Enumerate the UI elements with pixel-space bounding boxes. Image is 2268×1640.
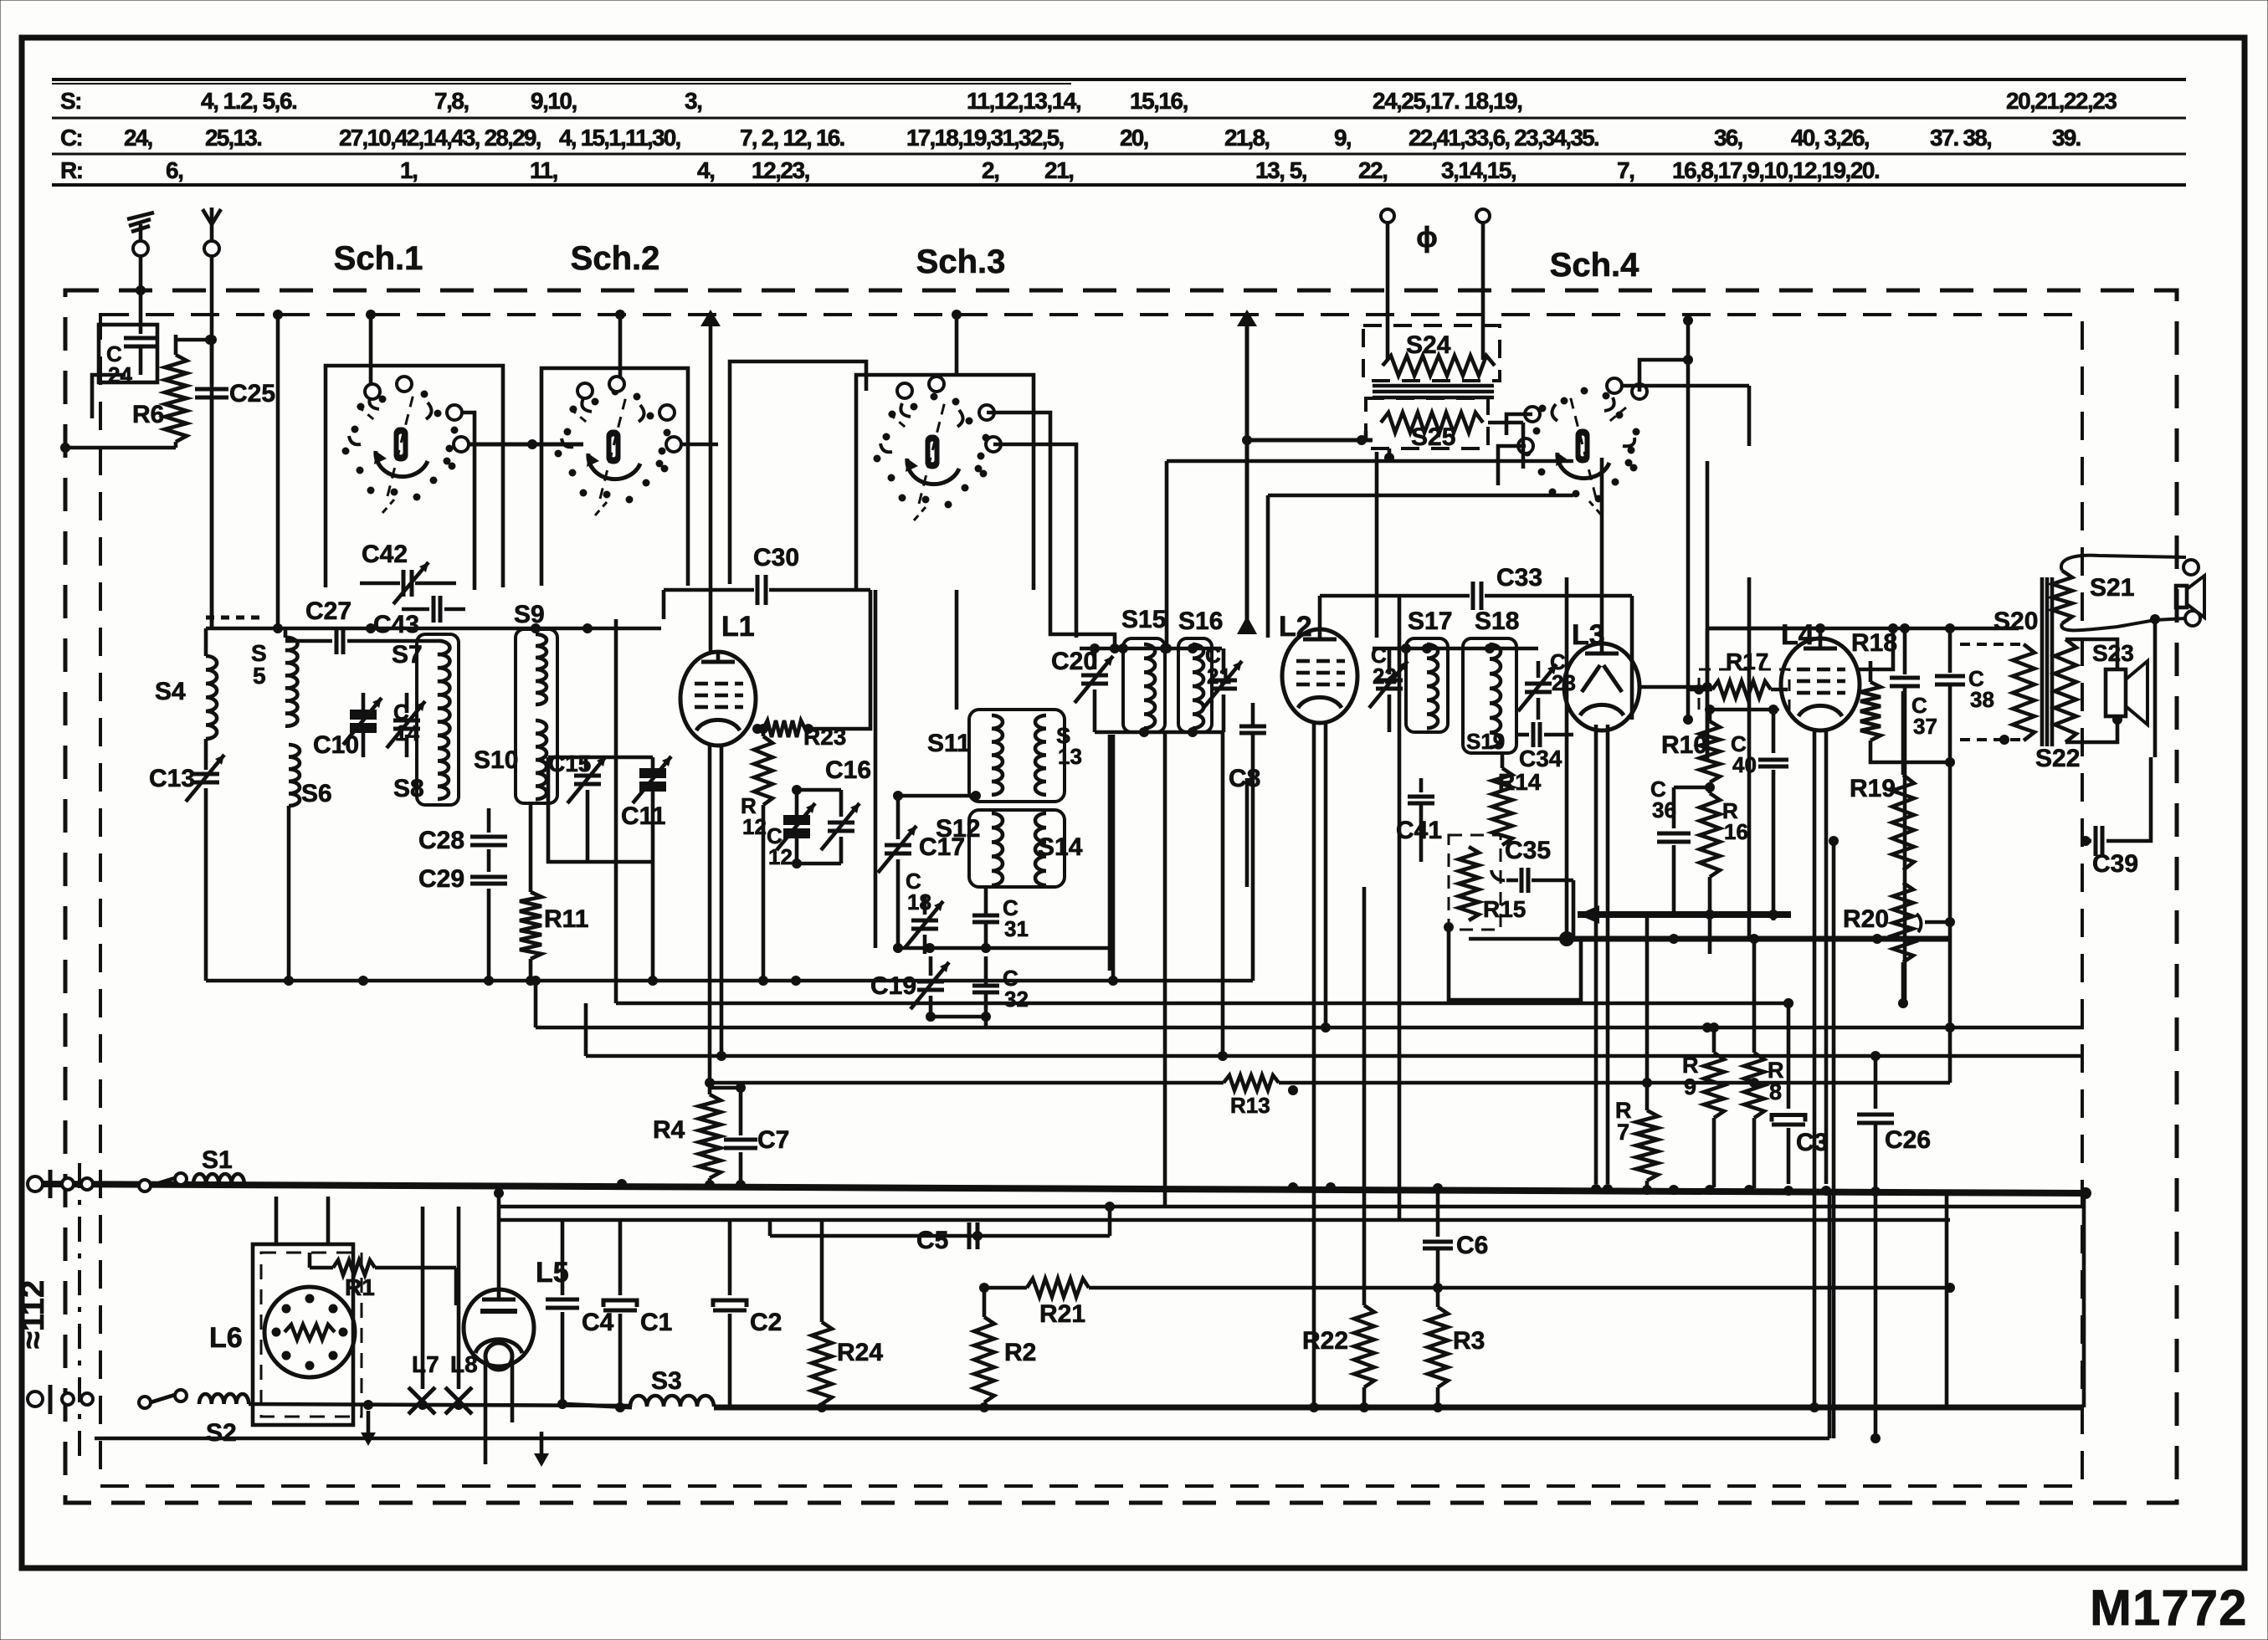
capacitor C19 [870, 956, 949, 1017]
wire L4 plate right [1858, 623, 1898, 669]
capacitor C39 [2081, 757, 2151, 878]
capacitor C3 [1772, 998, 1828, 1184]
resistor R12 [741, 724, 772, 986]
wire Sch.1 to Sch.2 [462, 413, 583, 590]
table extra top rule [52, 83, 1071, 85]
table R row '11,' [530, 157, 557, 183]
svg-text:M1772: M1772 [2090, 1580, 2247, 1636]
svg-text:4,: 4, [697, 157, 714, 183]
svg-text:38: 38 [1970, 687, 1994, 712]
table C row '20,' [1120, 125, 1148, 151]
svg-text:C7: C7 [757, 1126, 789, 1154]
wire R18 bottom [1870, 757, 1955, 767]
table R row '3,14,15,' [1441, 157, 1516, 183]
wire L1 legs [710, 746, 721, 1083]
table R row '13, 5,' [1255, 157, 1306, 183]
wire H1294 [705, 1078, 1224, 1088]
capacitor C17 [878, 791, 981, 953]
capacitor C37 [1890, 628, 1937, 1003]
wire ground to chassis [136, 255, 146, 295]
coil S5 [251, 628, 297, 726]
capacitor C34 [1516, 722, 1573, 771]
wire bottom risers [1947, 1193, 2084, 1407]
enclosure S15 [1123, 638, 1165, 732]
svg-text:C8: C8 [1229, 765, 1260, 792]
svg-text:R14: R14 [1498, 769, 1542, 795]
wire speaker drop [2153, 619, 2158, 757]
table rule 2 [52, 117, 2186, 120]
wire S15 bottoms [1095, 727, 1224, 737]
resistor R10 [1661, 705, 1720, 782]
svg-text:24: 24 [108, 362, 132, 387]
capacitor C30 [664, 544, 870, 729]
table R row '2,' [982, 157, 998, 183]
rotary switch Sch.4 [1518, 378, 1647, 515]
wire H1228 [531, 976, 2084, 1033]
svg-text:9: 9 [1684, 1074, 1696, 1099]
svg-text:R24: R24 [837, 1339, 883, 1366]
svg-text:R18: R18 [1851, 629, 1897, 657]
svg-text:4, 15,1,11,30,: 4, 15,1,11,30, [559, 125, 680, 151]
wire R21 right [1089, 1283, 1955, 1293]
table C row '4, 15,1,11,30,' [559, 125, 680, 151]
svg-text:Sch.2: Sch.2 [571, 240, 660, 277]
svg-text:≈112: ≈112 [16, 1280, 51, 1349]
capacitor C27 [285, 597, 438, 654]
enclosure S11 S13 [969, 710, 1065, 802]
svg-text:C2: C2 [750, 1309, 782, 1336]
wire cross 547 [1706, 461, 1710, 761]
svg-text:S18: S18 [1475, 607, 1519, 635]
label S19 [1466, 729, 1505, 754]
resistor R4 [653, 1083, 721, 1184]
coil S6 [289, 745, 332, 981]
coil S22 [2035, 639, 2117, 772]
wire L5 legs [485, 1361, 512, 1464]
capacitor C15 [548, 751, 606, 862]
wire IF caps [898, 943, 1113, 1028]
svg-text:C35: C35 [1505, 837, 1551, 864]
svg-text:11,12,13,14,: 11,12,13,14, [967, 88, 1080, 114]
capacitor C38 [1935, 628, 1994, 912]
tube L4 [1781, 619, 1860, 730]
svg-text:R20: R20 [1843, 905, 1889, 933]
svg-text:R10: R10 [1661, 731, 1707, 759]
capacitor C14 [387, 693, 425, 757]
table C row 'C:' [60, 125, 82, 151]
wire lamp line [249, 1400, 632, 1410]
svg-text:27,10,42,14,43, 28,29,: 27,10,42,14,43, 28,29, [339, 125, 541, 151]
wire right risers [1945, 912, 1955, 1083]
svg-text:20,: 20, [1120, 125, 1148, 151]
svg-text:S21: S21 [2090, 574, 2134, 602]
wire antenna down [207, 255, 217, 628]
svg-text:C33: C33 [1496, 564, 1542, 592]
wire R6 bottom [60, 443, 176, 453]
svg-text:S8: S8 [393, 775, 424, 802]
svg-text:39.: 39. [2052, 125, 2081, 151]
resistor R3 [1428, 1249, 1485, 1406]
svg-text:25,13.: 25,13. [205, 125, 261, 151]
svg-text:C16: C16 [825, 756, 871, 784]
chassis dashed rect inner [100, 315, 2082, 1486]
svg-text:21: 21 [1207, 664, 1231, 689]
wire L4 top [1707, 623, 1825, 761]
wire H1294 right [1279, 915, 1950, 1095]
svg-text:21,: 21, [1044, 157, 1073, 183]
enclosure S16 [1178, 638, 1212, 732]
table S row '24,25,17. 18,19,' [1373, 88, 1521, 114]
resistor R20 [1843, 883, 1955, 1003]
ground arrow L5 [534, 1432, 549, 1467]
capacitor C4 [546, 1222, 614, 1406]
transformer core [1373, 386, 1494, 397]
capacitor C24 [92, 290, 157, 418]
wire Sch.2 out [681, 443, 718, 447]
coil S9 [514, 601, 546, 705]
capacitor C12 [767, 790, 815, 869]
svg-text:S4: S4 [155, 678, 186, 705]
svg-text:C11: C11 [621, 802, 665, 830]
wire L4 legs [1814, 729, 1826, 1406]
capacitor C28 [418, 808, 507, 854]
svg-text:R15: R15 [1483, 896, 1526, 922]
svg-text:22,: 22, [1358, 157, 1387, 183]
table C row '25,13.' [205, 125, 261, 151]
label Sch.4 [1550, 247, 1639, 284]
enclosure S9 S10 [516, 629, 557, 803]
wire x1326 riser [1108, 735, 1112, 971]
wire bottom bus [557, 1399, 2084, 1412]
svg-text:Sch.3: Sch.3 [916, 243, 1006, 280]
capacitor C36 [1650, 776, 1710, 915]
svg-text:C43: C43 [373, 611, 419, 638]
tube L6 [209, 1287, 355, 1377]
svg-text:8: 8 [1769, 1079, 1782, 1104]
svg-text:16,8,17,9,10,12,19,20.: 16,8,17,9,10,12,19,20. [1672, 157, 1879, 183]
capacitor C7 [710, 1083, 789, 1184]
svg-text:S15: S15 [1121, 606, 1166, 633]
capacitor C29 [418, 849, 507, 981]
svg-text:9,: 9, [1334, 125, 1351, 151]
svg-text:32: 32 [1004, 987, 1029, 1012]
resistor R17 [1699, 648, 1789, 710]
svg-text:R2: R2 [1004, 1339, 1036, 1366]
table C row '7, 2, 12, 16.' [740, 125, 844, 151]
coil S20 [1960, 607, 2038, 745]
table C row '9,' [1334, 125, 1351, 151]
svg-text:12,23,: 12,23, [752, 157, 809, 183]
svg-text:12: 12 [742, 814, 767, 839]
wire Sch4 to L3 [1498, 355, 1693, 485]
table C row '22,41,33,6, 23,34,35.' [1409, 125, 1598, 151]
svg-text:20,21,22,23: 20,21,22,23 [2006, 88, 2117, 114]
enclosure Sch.2 [541, 368, 688, 586]
svg-text:S3: S3 [651, 1367, 682, 1395]
svg-text:C29: C29 [418, 865, 464, 893]
table R row '4,' [697, 157, 714, 183]
capacitor C32 [972, 956, 1029, 1017]
capacitor C16 [792, 756, 871, 869]
coil S4 [155, 628, 217, 739]
capacitor C2 [713, 1222, 782, 1406]
wire H1262 [586, 1003, 2084, 1061]
label mains 112 [16, 1163, 80, 1464]
wire H1172 extension [1111, 735, 1116, 981]
wire S16 feed drop [1162, 461, 1172, 653]
table S row '20,21,22,23' [2006, 88, 2117, 114]
tube L1 [680, 611, 756, 746]
table S row '11,12,13,14,' [967, 88, 1080, 114]
enclosure S12 S14 [969, 810, 1065, 887]
svg-text:36,: 36, [1714, 125, 1742, 151]
svg-text:C10: C10 [313, 731, 359, 759]
table R row '12,23,' [752, 157, 809, 183]
label Sch.1 [334, 240, 423, 277]
wire S15 leg down [1163, 732, 1167, 1207]
svg-text:22,41,33,6, 23,34,35.: 22,41,33,6, 23,34,35. [1409, 125, 1598, 151]
wire x1672 drop [1398, 596, 1402, 1220]
wire coils bottom bus [206, 976, 1253, 986]
table S row '9,10,' [531, 88, 577, 114]
capacitor C11 [621, 756, 671, 986]
svg-text:C39: C39 [2092, 850, 2138, 878]
svg-text:C41: C41 [1396, 817, 1442, 844]
coil S2 [199, 1394, 249, 1447]
wire R17 junction [1688, 684, 1773, 710]
resistor R2 [974, 1288, 1036, 1402]
ground arrow L6 [361, 1411, 376, 1446]
rotary switch Sch.1 [342, 377, 470, 513]
wire Sch3 right drop B [993, 444, 1076, 638]
svg-text:S10: S10 [474, 746, 518, 774]
table S row '3,' [685, 88, 701, 114]
svg-text:C3: C3 [1796, 1129, 1828, 1156]
resistor R1 [276, 1197, 456, 1305]
svg-text:3,14,15,: 3,14,15, [1441, 157, 1516, 183]
capacitor C42 [360, 541, 456, 604]
wire main bus B+ [35, 1179, 2091, 1199]
transformer S25 [1366, 398, 1523, 469]
svg-text:16: 16 [1724, 819, 1748, 844]
wire Sch.3 top feed [952, 310, 962, 377]
svg-text:R13: R13 [1230, 1093, 1270, 1118]
coil S3 [630, 1367, 714, 1407]
table R row '6,' [166, 157, 182, 183]
resistor R13 [1224, 1075, 1279, 1118]
svg-text:R6: R6 [132, 401, 164, 428]
resistor R18 [1851, 629, 1897, 757]
resistor R11 [520, 803, 588, 981]
svg-text:C19: C19 [870, 972, 916, 1000]
capacitor C22 [1369, 643, 1408, 732]
wire S16 leg down [1218, 732, 1228, 1061]
svg-text:13: 13 [1058, 744, 1082, 769]
switch S1 lever [139, 1173, 187, 1192]
resistor R22 [1302, 887, 1374, 1406]
svg-text:40, 3,26,: 40, 3,26, [1791, 125, 1869, 151]
lamp L8 [445, 1207, 478, 1414]
table C row '39.' [2052, 125, 2081, 151]
svg-text:S24: S24 [1406, 331, 1451, 359]
svg-text:15,16,: 15,16, [1130, 88, 1188, 114]
svg-text:S17: S17 [1408, 607, 1452, 635]
wire S15 tops [1080, 643, 1222, 653]
coil S16 [1178, 607, 1223, 728]
svg-text:S19: S19 [1466, 729, 1505, 754]
svg-text:L4: L4 [1781, 619, 1814, 651]
wire H1719 [95, 1193, 1881, 1443]
svg-text:13, 5,: 13, 5, [1255, 157, 1306, 183]
wire L5 topcap [494, 1188, 504, 1289]
wire H1199 [616, 619, 1908, 1008]
svg-text:C5: C5 [916, 1227, 948, 1254]
wire x1872 drop [1565, 577, 1569, 939]
svg-text:22: 22 [1373, 664, 1397, 689]
svg-text:37. 38,: 37. 38, [1930, 125, 1991, 151]
svg-text:36: 36 [1652, 797, 1676, 823]
wire top coil bus [206, 618, 661, 633]
svg-text:C13: C13 [149, 765, 195, 792]
svg-text:R17: R17 [1726, 648, 1768, 674]
capacitor C33 [1320, 564, 1632, 720]
svg-text:C28: C28 [418, 827, 464, 854]
svg-text:1,: 1, [400, 157, 417, 183]
coil S12 [936, 813, 1003, 885]
svg-text:C1: C1 [640, 1309, 672, 1336]
enclosure S17 [1406, 638, 1448, 732]
table S row 'S:' [60, 88, 81, 114]
svg-text:7,8,: 7,8, [434, 88, 469, 114]
wire S25 bottom drop [1375, 452, 1379, 638]
resistor R14 [1492, 753, 1542, 845]
table C row '36,' [1714, 125, 1742, 151]
svg-text:R:: R: [60, 157, 83, 183]
wire R21 line [979, 1283, 1027, 1293]
svg-text:31: 31 [1004, 916, 1029, 941]
svg-text:L7: L7 [412, 1351, 439, 1377]
capacitor C20 [1051, 643, 1113, 732]
table S row '15,16,' [1130, 88, 1188, 114]
lamp L7 [408, 1207, 439, 1414]
tube L5 [464, 1257, 569, 1370]
svg-text:Sch.1: Sch.1 [334, 240, 423, 277]
capacitor C23 [1518, 649, 1576, 720]
svg-text:C25: C25 [229, 380, 275, 407]
coil S17 [1408, 607, 1452, 728]
svg-text:C42: C42 [362, 541, 408, 568]
rotary switch Sch.3 [874, 377, 1002, 520]
capacitor C35 [1491, 837, 1573, 893]
resistor R16 [1700, 782, 1748, 954]
svg-text:7,: 7, [1617, 157, 1634, 183]
coil S8 [393, 735, 449, 802]
svg-text:Sch.4: Sch.4 [1550, 247, 1639, 284]
resistor R21 [1027, 1279, 1089, 1328]
capacitor C10 [313, 693, 382, 759]
svg-text:C15: C15 [548, 751, 591, 776]
coil S10 [474, 720, 546, 799]
table R row '16,8,17,9,10,12,19,20.' [1672, 157, 1879, 183]
table C row '37. 38,' [1930, 125, 1991, 151]
resistor R24 [812, 1222, 883, 1404]
svg-text:S11: S11 [927, 730, 971, 757]
table C row '17,18,19,31,32,5,' [906, 125, 1063, 151]
svg-text:S:: S: [60, 88, 81, 114]
capacitor C6 [1423, 1188, 1488, 1259]
wire L1 topcap riser [700, 310, 721, 652]
resistor R9 [1682, 1022, 1724, 1187]
chassis dashed rect outer [65, 290, 2177, 1503]
capacitor C43 [373, 596, 465, 638]
table rule 4 [52, 183, 2186, 187]
table R row '7,' [1617, 157, 1634, 183]
capacitor C25 [195, 340, 275, 628]
svg-text:L1: L1 [721, 611, 755, 643]
svg-text:9,10,: 9,10, [531, 88, 577, 114]
wire x2090 drop [1621, 386, 1749, 939]
coil S21 [2052, 556, 2186, 631]
switch S2 lever [139, 1390, 187, 1408]
svg-text:L8: L8 [450, 1351, 478, 1377]
wire S25 feed [1242, 435, 1373, 445]
svg-text:R22: R22 [1302, 1327, 1348, 1355]
table R row '22,' [1358, 157, 1387, 183]
wire Sch.2 top feed [615, 310, 625, 377]
table C row '40, 3,26,' [1791, 125, 1869, 151]
table C row '21,8,' [1224, 125, 1269, 151]
wire Sch.3 loop to L1 [730, 361, 866, 584]
wire Sch.4 riser [1683, 315, 1693, 725]
wire Sch.3 loop right [875, 590, 957, 948]
power terminal top [28, 1170, 93, 1198]
wire x2191 drop [1829, 836, 1839, 1438]
coil S13 [1035, 715, 1082, 795]
rotary switch Sch.2 [555, 377, 682, 515]
svg-text:S23: S23 [2092, 640, 2134, 666]
wire y592 staircase [1268, 495, 1573, 638]
svg-text:R11: R11 [544, 905, 588, 933]
wire L3 legs [1596, 725, 1608, 1184]
svg-text:S20: S20 [1993, 607, 2038, 635]
label Sch.2 [571, 240, 660, 277]
svg-text:C:: C: [60, 125, 82, 151]
wire H1458 [499, 1218, 1950, 1222]
svg-text:L2: L2 [1279, 611, 1312, 643]
svg-text:S9: S9 [514, 601, 545, 628]
wire L2 topcap [1318, 596, 1322, 629]
resistor R23 [752, 720, 846, 750]
svg-text:24,25,17. 18,19,: 24,25,17. 18,19, [1373, 88, 1521, 114]
resistor R7 [1615, 1083, 1658, 1187]
capacitor C41 [1396, 778, 1442, 862]
table rule 1 [52, 78, 2186, 81]
svg-text:C4: C4 [582, 1309, 614, 1336]
table R row 'R:' [60, 157, 83, 183]
label M1772 [2090, 1580, 2247, 1636]
svg-text:11,: 11, [530, 157, 557, 183]
wire L2 legs [1314, 721, 1326, 1406]
svg-text:C34: C34 [1519, 746, 1562, 771]
table S row '7,8,' [434, 88, 469, 114]
tube L2 [1279, 611, 1357, 723]
svg-text:R19: R19 [1850, 775, 1896, 802]
svg-text:S22: S22 [2035, 745, 2080, 772]
capacitor C1 [603, 1222, 672, 1406]
enclosure Sch.3 [856, 375, 1034, 590]
svg-text:R3: R3 [1453, 1327, 1485, 1355]
svg-text:R21: R21 [1039, 1300, 1085, 1328]
